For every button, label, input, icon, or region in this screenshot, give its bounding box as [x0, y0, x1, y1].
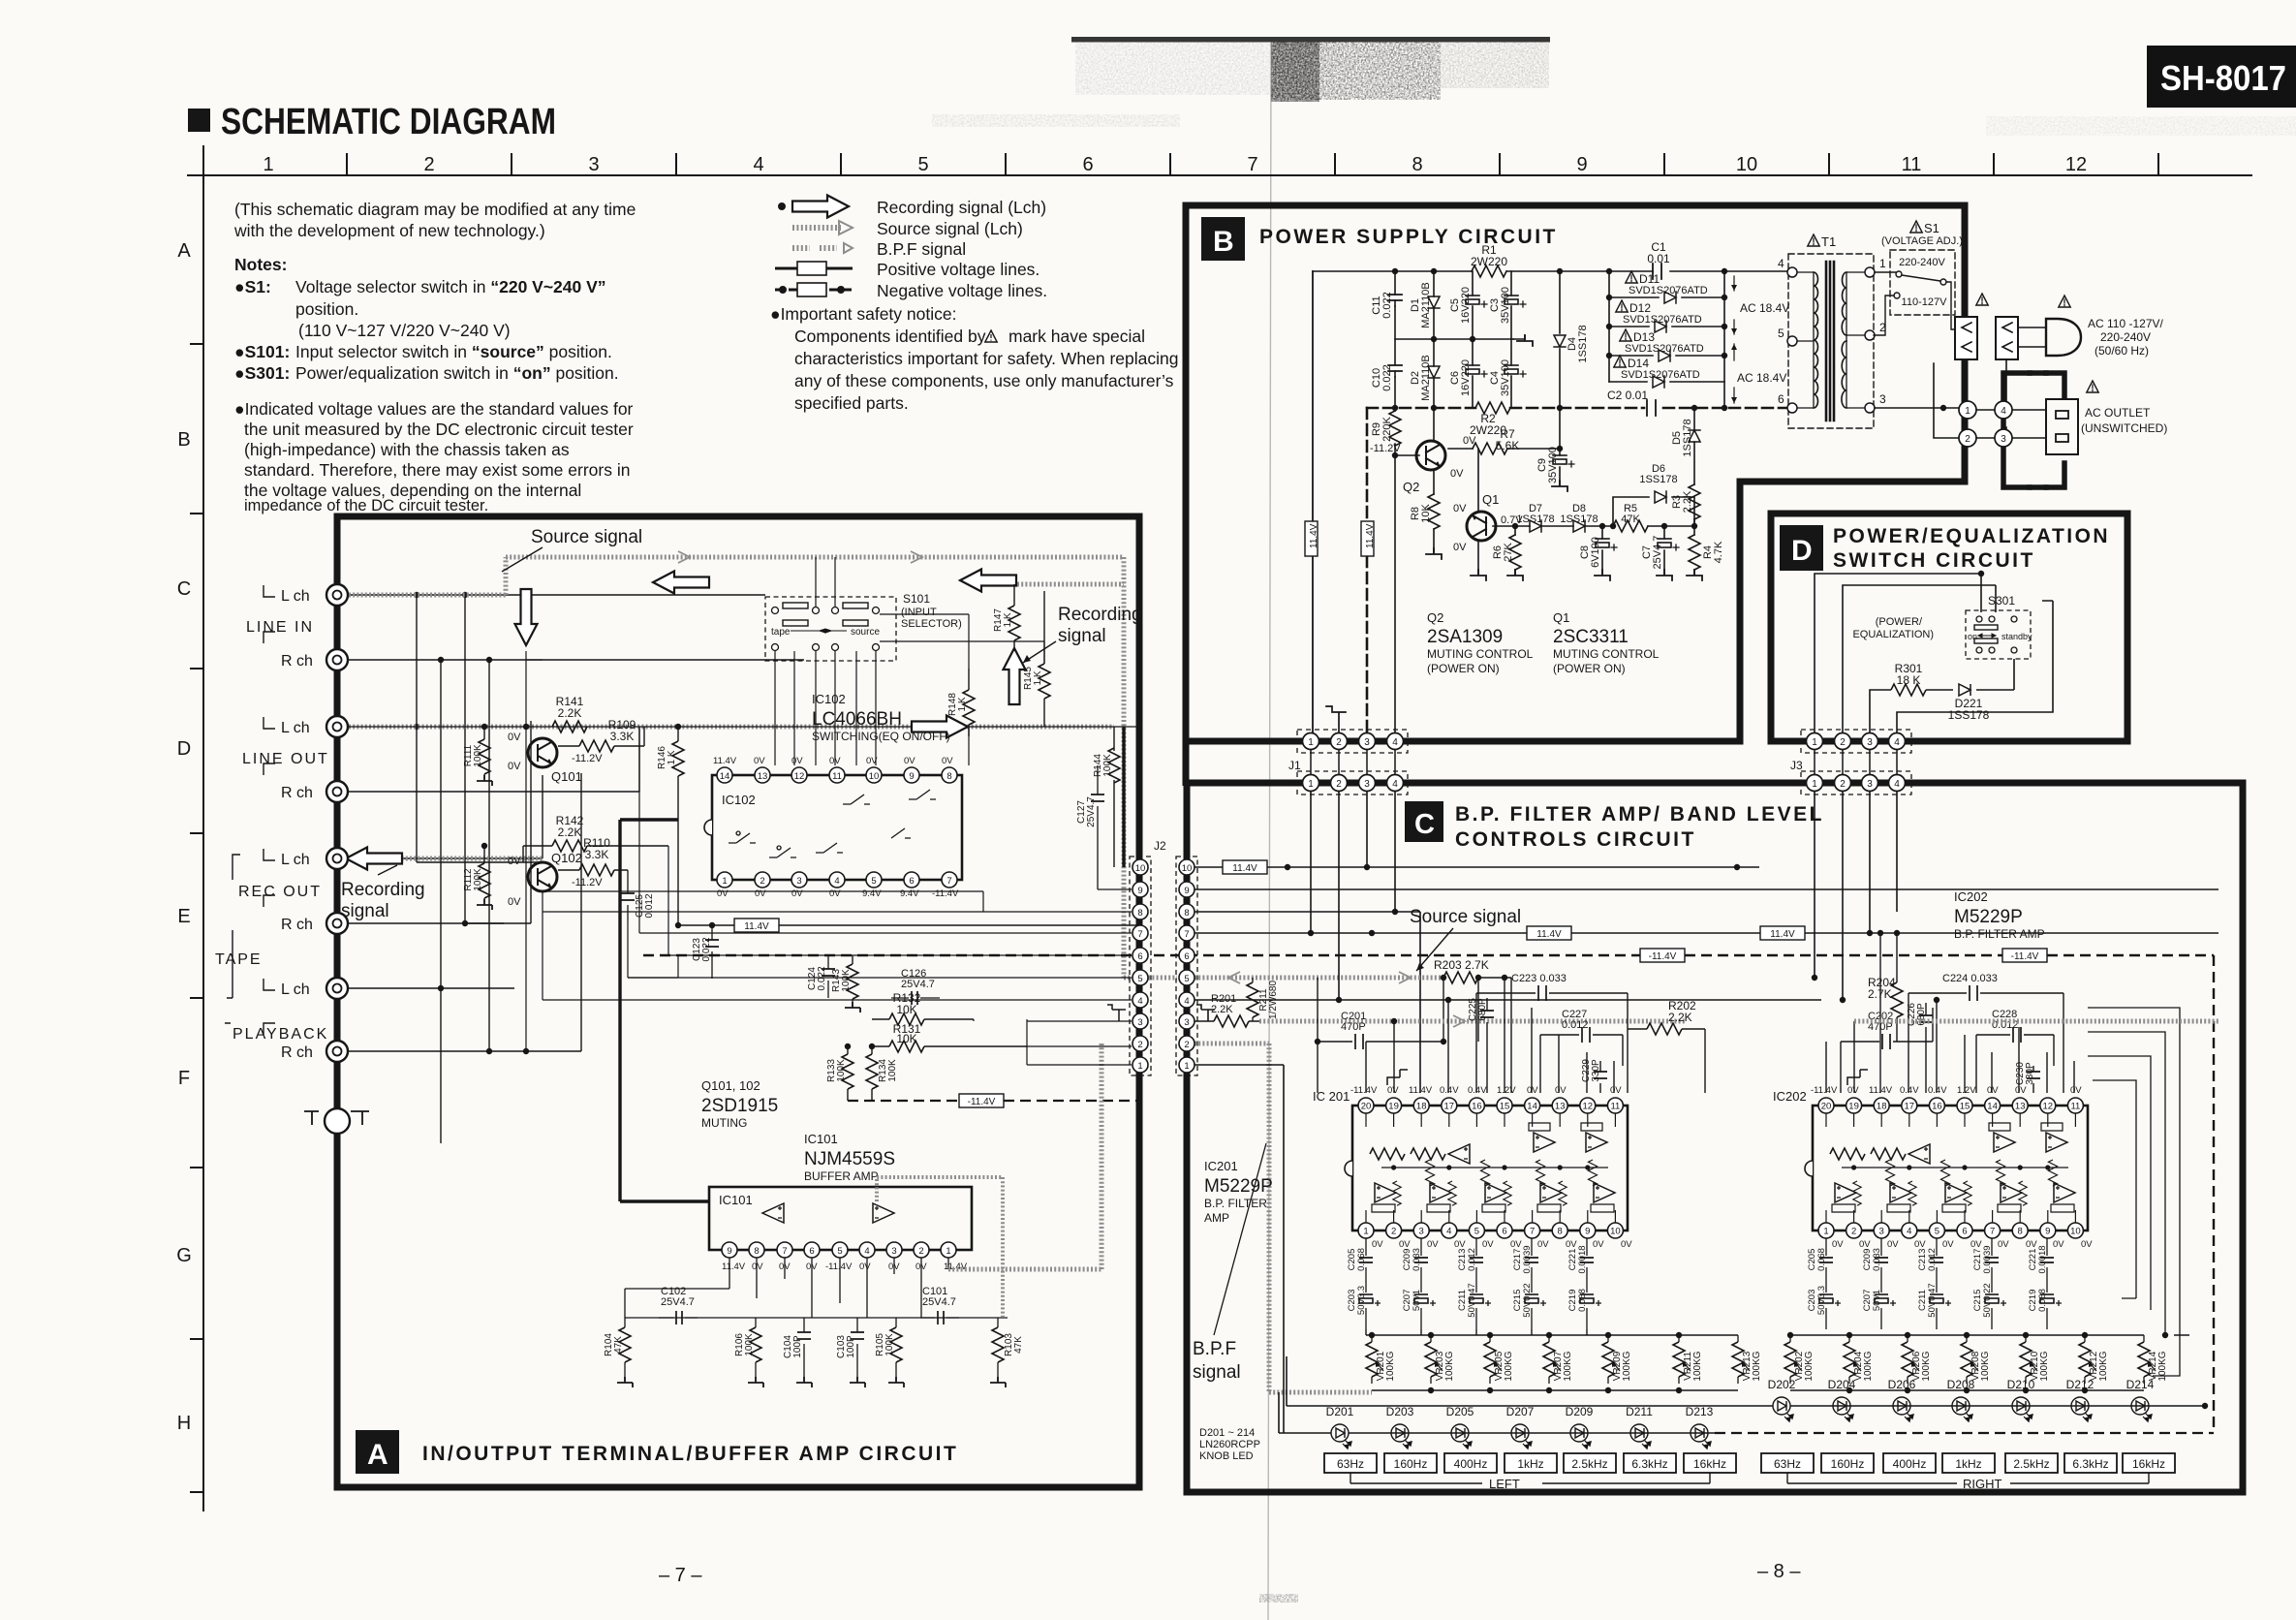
svg-text:2: 2 [918, 1246, 923, 1257]
capacitor C7 [1663, 526, 1665, 574]
svg-text:3: 3 [1364, 779, 1370, 790]
svg-text:LC4066BH: LC4066BH [812, 709, 902, 730]
svg-text:– 7 –: – 7 – [659, 1565, 702, 1586]
left axis [190, 190, 203, 1511]
svg-text:12: 12 [2065, 154, 2087, 175]
svg-text:220-240V: 220-240V [2100, 330, 2151, 344]
bus wire J2 pin8 [1195, 912, 1420, 1093]
svg-text:H: H [177, 1413, 191, 1434]
frequency box 16kHz L [1684, 1453, 1736, 1473]
svg-text:D: D [1791, 535, 1813, 567]
J1 connector [1288, 730, 1408, 794]
svg-text:any of these components, use o: any of these components, use only manufa… [794, 371, 1174, 390]
svg-text:the unit measured by the DC el: the unit measured by the DC electronic c… [244, 420, 634, 439]
capacitor C229 330P [1599, 1061, 1601, 1093]
diode bank D11-D14 vertical buses [1609, 271, 1724, 408]
bold feed wires IC101 [620, 820, 709, 1201]
transistor Q102 [528, 862, 557, 891]
svg-text:0V: 0V [904, 756, 915, 766]
svg-text:2: 2 [760, 876, 764, 887]
svg-text:0.012: 0.012 [1562, 1019, 1589, 1031]
svg-text:(This schematic diagram may be: (This schematic diagram may be modified … [234, 200, 636, 219]
svg-text:1: 1 [1965, 406, 1970, 417]
svg-text:●S1:: ●S1: [234, 277, 271, 296]
svg-text:2.2K: 2.2K [558, 706, 582, 720]
resistor R8 [1428, 494, 1440, 529]
svg-text:PLAYBACK: PLAYBACK [233, 1026, 328, 1043]
svg-text:0V: 0V [866, 756, 878, 766]
svg-text:Power/equalization switch in “: Power/equalization switch in “on” positi… [295, 363, 619, 383]
svg-text:3: 3 [1867, 737, 1873, 748]
svg-text:Components identified by: Components identified by [794, 327, 986, 346]
svg-text:source: source [851, 627, 880, 638]
svg-text:1kHz: 1kHz [1955, 1457, 1981, 1471]
bus wire J2 pin7 11.4V [1195, 932, 2218, 934]
capacitor C10 [1388, 365, 1402, 371]
svg-text:6: 6 [909, 876, 914, 887]
svg-text:S101: S101 [903, 592, 930, 606]
svg-text:KNOB LED: KNOB LED [1199, 1450, 1254, 1462]
svg-text:mark have special: mark have special [1008, 327, 1145, 346]
white arrow down [515, 589, 538, 645]
svg-text:VR209100KG: VR209100KG [1612, 1351, 1632, 1381]
J2 connector double column [1130, 839, 1197, 1075]
svg-text:AC OUTLET: AC OUTLET [2085, 406, 2151, 420]
svg-text:SVD1S2076ATD: SVD1S2076ATD [1629, 285, 1708, 296]
svg-text:MUTING: MUTING [701, 1116, 747, 1130]
jack terminal LINE OUT L [326, 716, 348, 737]
svg-text:VR210100KG: VR210100KG [2030, 1351, 2050, 1381]
svg-text:R111100K: R111100K [463, 744, 483, 767]
svg-text:D205: D205 [1446, 1405, 1474, 1418]
LED D208 [1952, 1397, 1972, 1421]
svg-text:1SS178: 1SS178 [1516, 514, 1554, 525]
svg-text:2: 2 [1336, 779, 1342, 790]
svg-text:with the development of new te: with the development of new technology.) [233, 221, 545, 240]
svg-text:4: 4 [1894, 737, 1900, 748]
svg-text:IN/OUTPUT TERMINAL/BUFFER AM: IN/OUTPUT TERMINAL/BUFFER AMP CIRCUIT [422, 1443, 958, 1465]
white arrow left rec out [346, 848, 402, 870]
resistor R4 [1693, 519, 1695, 535]
svg-text:0V: 0V [829, 756, 841, 766]
VR top bus right [1790, 1334, 2189, 1336]
wire buffer links [543, 891, 983, 978]
diode D2 [1428, 366, 1440, 378]
svg-text:F: F [178, 1068, 190, 1089]
LED D201 [1331, 1424, 1351, 1449]
jack terminal LINE IN R [326, 649, 348, 670]
vertical link mesh [417, 595, 543, 1143]
LED D213 [1691, 1424, 1711, 1449]
frequency box 1kHz L [1505, 1453, 1557, 1473]
svg-text:C1230.022: C1230.022 [692, 937, 712, 961]
resistor R112 [483, 846, 485, 863]
LED wire left row [1279, 1432, 1715, 1434]
svg-text:1: 1 [1812, 737, 1817, 748]
svg-text:standby: standby [2001, 632, 2032, 641]
chassis ground jack [325, 1108, 350, 1134]
input selector S101 [765, 592, 962, 661]
bottom RC row common wire [625, 1317, 1008, 1319]
svg-text:D201 ~ 214: D201 ~ 214 [1199, 1427, 1255, 1439]
svg-text:8: 8 [946, 771, 951, 782]
svg-text:D209: D209 [1566, 1405, 1594, 1418]
hatched bpf path near IC101 [948, 1044, 1101, 1269]
svg-text:VR214100KG: VR214100KG [2148, 1351, 2168, 1381]
svg-text:C1240.022: C1240.022 [807, 966, 827, 990]
wire R301 row [1870, 659, 2014, 733]
hatched source signal path [349, 557, 1177, 978]
notes text block [233, 200, 636, 514]
diode D14 [1609, 381, 1724, 383]
jack terminal REC OUT L [326, 848, 348, 869]
svg-text:1SS178: 1SS178 [1560, 514, 1598, 525]
svg-text:C230330P: C230330P [2015, 1062, 2035, 1085]
capacitor C127 [1097, 765, 1099, 889]
boxed 11.4V mid [678, 924, 1139, 926]
capacitor C102 [659, 1317, 698, 1319]
resistor R301 [1891, 684, 1926, 696]
resistor R106 [755, 1318, 757, 1327]
svg-text:Recording: Recording [1058, 605, 1142, 625]
svg-text:●Important safety notice:: ●Important safety notice: [770, 304, 956, 324]
svg-text:0V: 0V [791, 888, 803, 899]
wire Q2 base [1395, 454, 1419, 456]
vertical feeds IC201 top pins [1366, 978, 1614, 1093]
svg-text:1kHz: 1kHz [1517, 1457, 1543, 1471]
svg-text:– 8 –: – 8 – [1757, 1561, 1801, 1582]
svg-text:SCHEMATIC DIAGRAM: SCHEMATIC DIAGRAM [221, 102, 556, 142]
svg-text:M5229P: M5229P [1204, 1176, 1273, 1197]
diode D12 [1609, 326, 1724, 327]
svg-text:Source signal: Source signal [531, 527, 642, 547]
svg-text:8: 8 [1137, 908, 1142, 919]
svg-text:2: 2 [1336, 737, 1342, 748]
diode D221 [1959, 684, 1970, 696]
svg-text:3: 3 [1879, 392, 1886, 406]
capacitor C3 [1510, 271, 1512, 339]
IC202 chip [1805, 1085, 2093, 1250]
svg-text:1: 1 [1184, 1061, 1189, 1072]
safety mark near plug connector [1976, 294, 1988, 305]
svg-text:(POWER/: (POWER/ [1876, 616, 1923, 628]
svg-text:LN260RCPP: LN260RCPP [1199, 1439, 1260, 1450]
LEFT bracket [1350, 1473, 1710, 1483]
svg-text:LINE OUT: LINE OUT [242, 751, 329, 767]
svg-text:2: 2 [1840, 737, 1846, 748]
svg-text:C229330P: C229330P [1581, 1059, 1601, 1082]
svg-text:R133100K: R133100K [826, 1059, 847, 1082]
svg-text:LINE IN: LINE IN [246, 619, 314, 636]
wire vertical 11.4V rail J1-1 [1312, 271, 1314, 733]
resistor R105 [895, 1318, 897, 1327]
svg-text:4: 4 [1184, 996, 1189, 1007]
capacitor C4 [1510, 339, 1512, 408]
bus wire J2 pin5 source signal hatched [1195, 976, 1443, 981]
wire vertical D4 column [1559, 271, 1561, 449]
svg-text:R105100K: R105100K [875, 1333, 895, 1356]
resistor R146 [677, 727, 679, 819]
svg-text:3: 3 [891, 1246, 896, 1257]
jack labels [215, 588, 329, 1061]
svg-text:D201: D201 [1326, 1405, 1354, 1418]
svg-text:160Hz: 160Hz [1394, 1457, 1428, 1471]
svg-text:1: 1 [1308, 779, 1314, 790]
frequency box 400Hz L [1444, 1453, 1497, 1473]
jack terminal REC OUT R [326, 913, 348, 934]
svg-text:VR206100KG: VR206100KG [1911, 1351, 1932, 1381]
svg-text:R ch: R ch [281, 917, 313, 933]
svg-text:11.4V: 11.4V [944, 1262, 968, 1272]
bottom fold smudge [1259, 1594, 1298, 1603]
resistor R142 [552, 840, 587, 852]
svg-text:Recording: Recording [341, 880, 425, 900]
svg-text:NJM4559S: NJM4559S [804, 1149, 895, 1169]
svg-text:4: 4 [2001, 406, 2006, 417]
dashed -11.4V wire [848, 1100, 1139, 1102]
svg-text:MUTING CONTROL: MUTING CONTROL [1553, 647, 1660, 661]
resistor R3 [1689, 484, 1700, 519]
potentiometer VR214 [2138, 1335, 2156, 1384]
svg-text:4: 4 [1894, 779, 1900, 790]
two pin connector female [1996, 317, 2018, 359]
jack terminal PLAYBACK R [326, 1041, 348, 1062]
resistor R6 [1514, 526, 1516, 535]
LED D210 [2012, 1397, 2032, 1421]
svg-text:D: D [177, 738, 191, 760]
svg-text:0V: 0V [1453, 542, 1467, 553]
SH-8017 model box [2147, 46, 2296, 108]
svg-text:LEFT: LEFT [1489, 1477, 1520, 1491]
resistor R132 [872, 1018, 974, 1020]
svg-text:2.2K: 2.2K [558, 826, 582, 839]
svg-text:D204: D204 [1828, 1378, 1856, 1391]
svg-text:R10447K: R10447K [604, 1333, 624, 1356]
svg-text:C103100P: C103100P [836, 1335, 856, 1358]
wire playback feed [526, 651, 1132, 1051]
svg-text:VR208100KG: VR208100KG [1970, 1351, 1991, 1381]
diode D6 bridge [1613, 497, 1694, 526]
svg-text:11.4V: 11.4V [1309, 523, 1319, 548]
LED D203 [1391, 1424, 1412, 1449]
resistor R2 [1475, 402, 1510, 414]
svg-text:SELECTOR): SELECTOR) [901, 618, 962, 630]
bold wire J2 column A [1122, 727, 1125, 867]
svg-text:2SC3311: 2SC3311 [1553, 627, 1629, 647]
svg-text:IC201: IC201 [1204, 1159, 1238, 1173]
diode D4 [1554, 335, 1566, 347]
wire top rail +18V [1313, 270, 1788, 272]
svg-text:7: 7 [1184, 929, 1189, 940]
resistor R104 [624, 1318, 626, 1327]
svg-text:IC202: IC202 [1773, 1089, 1807, 1104]
svg-text:CONTROLS CIRCUIT: CONTROLS CIRCUIT [1455, 828, 1696, 851]
svg-text:Q102: Q102 [551, 851, 582, 865]
svg-text:C225680P: C225680P [1468, 998, 1488, 1021]
svg-text:6.3kHz: 6.3kHz [1631, 1457, 1667, 1471]
svg-text:Negative voltage lines.: Negative voltage lines. [877, 281, 1047, 300]
svg-text:16kHz: 16kHz [2132, 1457, 2165, 1471]
VR bottom bus left [1372, 1389, 1738, 1391]
potentiometer VR204 [1844, 1335, 1861, 1384]
svg-text:5: 5 [1184, 974, 1189, 984]
svg-text:0V: 0V [859, 1262, 871, 1272]
page fold vertical line [1268, 43, 1271, 1620]
bus wire J2 pin2 BPF hatched [1195, 1044, 1372, 1392]
svg-text:10: 10 [1182, 863, 1193, 874]
svg-text:●Indicated voltage values are: ●Indicated voltage values are the standa… [234, 399, 634, 419]
svg-text:VR207100KG: VR207100KG [1553, 1351, 1573, 1381]
svg-text:AMP: AMP [1204, 1211, 1229, 1225]
svg-text:D211: D211 [1626, 1405, 1653, 1418]
svg-text:5: 5 [1778, 327, 1784, 340]
svg-text:1: 1 [1812, 779, 1817, 790]
potentiometer VR210 [2020, 1335, 2037, 1384]
svg-text:47K: 47K [1621, 514, 1640, 525]
wire Q1 row [1493, 525, 1694, 527]
svg-text:D207: D207 [1506, 1405, 1535, 1418]
svg-text:2: 2 [1840, 779, 1846, 790]
diode D13 [1609, 355, 1724, 357]
resistor R143 [852, 955, 853, 964]
svg-text:3: 3 [1867, 779, 1873, 790]
svg-text:3: 3 [796, 876, 801, 887]
legend positive voltage line [775, 262, 853, 275]
svg-text:63Hz: 63Hz [1774, 1457, 1801, 1471]
svg-text:11.4V: 11.4V [1232, 863, 1257, 874]
capacitor C223 0.033 [1476, 993, 1628, 1093]
wire lower rail dashed negative [1367, 407, 1788, 410]
svg-text:-11.4V: -11.4V [1649, 951, 1677, 962]
J3 pin drop wires into box C [1815, 791, 1897, 1000]
svg-text:11: 11 [832, 771, 842, 782]
svg-text:B.P. FILTER AMP/ BAND LEVEL: B.P. FILTER AMP/ BAND LEVEL [1455, 803, 1824, 826]
svg-text:T1: T1 [1821, 234, 1836, 249]
svg-text:0V: 0V [942, 756, 953, 766]
LED D209 [1570, 1424, 1591, 1449]
two pin connector male [1955, 317, 1977, 359]
IC102 block [704, 756, 962, 899]
svg-text:SH-8017: SH-8017 [2160, 58, 2286, 98]
transistor Q1 [1467, 512, 1496, 541]
svg-text:R203 2.7K: R203 2.7K [1434, 958, 1489, 972]
svg-text:10K: 10K [896, 1003, 916, 1016]
svg-text:Q2: Q2 [1403, 480, 1419, 494]
svg-text:TAPE: TAPE [215, 951, 263, 968]
svg-text:D210: D210 [2007, 1378, 2035, 1391]
svg-text:1: 1 [946, 1246, 950, 1257]
svg-text:Input selector switch in “sour: Input selector switch in “source” positi… [295, 342, 612, 361]
capacitor C126 [891, 997, 940, 999]
svg-text:8: 8 [1412, 154, 1422, 175]
ground mid rail [1517, 335, 1533, 346]
scan fold smudge top center [932, 37, 1550, 127]
svg-text:C224 0.033: C224 0.033 [1942, 973, 1998, 984]
bus wire J2 pin9 [1195, 888, 2218, 890]
title block square [188, 109, 210, 132]
svg-text:C104100P: C104100P [783, 1335, 803, 1358]
resistor R145 [1043, 591, 1045, 727]
svg-text:impedance of the DC circuit te: impedance of the DC circuit tester. [244, 497, 488, 514]
frequency box 1kHz R [1942, 1453, 1995, 1473]
capacitor C226 680P [1925, 1003, 1927, 1093]
svg-text:R143100K: R143100K [831, 969, 852, 992]
potentiometer VR206 [1902, 1335, 1919, 1384]
svg-text:-11.2V: -11.2V [572, 877, 603, 888]
resistor R211 [1252, 978, 1254, 1021]
svg-text:C1250.012: C1250.012 [635, 893, 655, 918]
svg-text:2SD1915: 2SD1915 [701, 1096, 778, 1116]
badge B [1201, 217, 1245, 261]
wire right side [1897, 601, 2053, 733]
svg-text:signal: signal [1058, 626, 1106, 646]
svg-text:3: 3 [1364, 737, 1370, 748]
legend source arrow [792, 225, 841, 231]
svg-text:MUTING CONTROL: MUTING CONTROL [1427, 647, 1534, 661]
svg-text:C100.022: C100.022 [1371, 364, 1393, 391]
svg-text:-11.4V: -11.4V [968, 1097, 996, 1107]
svg-text:R ch: R ch [281, 785, 313, 801]
svg-text:●S101:: ●S101: [234, 342, 290, 361]
svg-text:110-127V: 110-127V [1902, 296, 1948, 308]
badge D [1780, 525, 1823, 571]
IC101 block [709, 1187, 972, 1272]
box D border [1771, 514, 2127, 741]
svg-text:-11.4V: -11.4V [932, 888, 959, 899]
jack terminal LINE IN L [326, 584, 348, 606]
svg-text:-11.4V: -11.4V [2011, 951, 2039, 962]
wire S101 links [794, 557, 1044, 765]
frequency box 160Hz R [1821, 1453, 1874, 1473]
frequency box 16kHz R [2123, 1453, 2175, 1473]
white arrow left second [960, 570, 1016, 592]
bus wire J2 pin10 11.4V [1195, 866, 1759, 868]
capacitor C101 [920, 1317, 959, 1319]
white arrow left on line-in feed [653, 572, 709, 594]
svg-text:9: 9 [1137, 886, 1142, 896]
resistor R203 [1443, 972, 1478, 983]
svg-text:0V: 0V [791, 756, 803, 766]
svg-text:11.4V: 11.4V [1536, 929, 1562, 940]
svg-text:C12725V4.7: C12725V4.7 [1076, 796, 1097, 827]
svg-text:D14: D14 [1628, 357, 1649, 370]
svg-text:REC OUT: REC OUT [238, 884, 322, 900]
resistor R7 [1448, 448, 1560, 450]
svg-text:6.3kHz: 6.3kHz [2072, 1457, 2108, 1471]
ground hook above IC202 pin19 [1847, 1070, 1868, 1085]
svg-text:25V4.7: 25V4.7 [901, 979, 935, 990]
svg-text:BUFFER AMP: BUFFER AMP [804, 1169, 879, 1183]
svg-text:9: 9 [727, 1246, 731, 1257]
ground hook at R201 [1196, 1005, 1215, 1021]
resistor R1 [1472, 265, 1506, 277]
capacitor C1 [1653, 264, 1661, 279]
capacitor bank C204-C222 under IC202 [1807, 1238, 2062, 1329]
svg-text:25V4.7: 25V4.7 [922, 1296, 956, 1308]
svg-text:SWITCH CIRCUIT: SWITCH CIRCUIT [1833, 549, 2035, 572]
transformer T1 [1778, 234, 1886, 428]
J2 pin circles col C [1179, 859, 1195, 1073]
voltage selector S1 [1874, 221, 1963, 335]
svg-text:0V: 0V [508, 732, 521, 743]
svg-text:9: 9 [1184, 886, 1189, 896]
svg-text:J1: J1 [1288, 759, 1301, 772]
svg-text:C110.022: C110.022 [1371, 292, 1393, 319]
svg-text:5: 5 [1137, 974, 1142, 984]
svg-text:0V: 0V [717, 888, 729, 899]
resistor R133 [847, 1046, 849, 1054]
svg-text:2: 2 [1965, 434, 1970, 445]
